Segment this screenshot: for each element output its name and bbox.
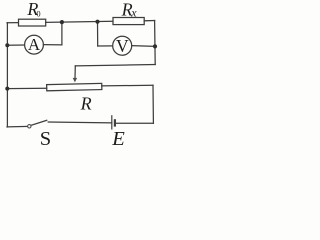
wire top rail middle segment [46, 21, 113, 22]
junction dot node right rail voltmeter [153, 44, 157, 48]
switch S pivot circle [28, 125, 31, 128]
svg-text:E: E [111, 128, 125, 147]
ammeter U A [25, 35, 44, 54]
wire bottom left segment [7, 125, 29, 128]
wire ammeter vertical up [61, 22, 63, 45]
svg-text:R: R [80, 94, 92, 114]
wire rheostat right [102, 84, 153, 87]
battery E short plate [114, 119, 116, 126]
switch S lever [30, 120, 47, 125]
wiper arrowhead [73, 78, 77, 83]
resistor Rx [113, 18, 144, 25]
resistor R0 [19, 19, 46, 26]
wire battery to switch segment [48, 121, 112, 124]
svg-text:V: V [116, 36, 129, 56]
svg-text:A: A [28, 35, 41, 54]
junction dot node left-rheostat [5, 87, 9, 91]
junction dot node top rail A [60, 20, 64, 24]
wire voltmeter left [98, 45, 113, 47]
wire right rail lower [152, 85, 154, 123]
junction dot node left-ammeter [5, 43, 9, 47]
wire top rail left segment [7, 22, 19, 24]
wire ammeter left stub [7, 44, 24, 46]
svg-text:S: S [40, 128, 51, 147]
wire left rail [6, 23, 8, 127]
wire top rail right segment [144, 20, 154, 22]
wire right rail upper [154, 21, 157, 65]
wire voltmeter drop [97, 22, 99, 46]
junction dot node top rail V [95, 20, 99, 24]
svg-text:x: x [130, 5, 137, 19]
wire bottom right segment [115, 122, 153, 124]
wire rheostat left [7, 87, 46, 89]
battery E long plate [111, 115, 113, 129]
wire ammeter right [43, 44, 62, 46]
voltmeter U V [113, 36, 132, 55]
svg-text:0: 0 [36, 8, 40, 18]
wire wiper vertical [74, 66, 76, 79]
wire wiper horizontal [75, 65, 155, 66]
rheostat R [47, 83, 102, 90]
wire voltmeter right [132, 45, 155, 48]
